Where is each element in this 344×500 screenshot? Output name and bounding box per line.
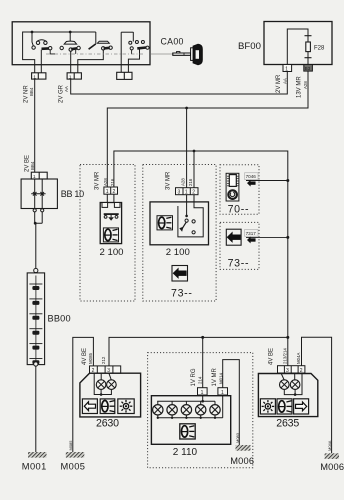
svg-text:M04A: M04A xyxy=(327,440,332,451)
svg-text:B3: B3 xyxy=(305,66,311,71)
svg-text:M083: M083 xyxy=(235,432,240,443)
svg-text:BB4: BB4 xyxy=(29,87,34,96)
svg-text:3V MR: 3V MR xyxy=(94,171,100,190)
svg-text:214: 214 xyxy=(198,376,203,384)
svg-text:13V MR: 13V MR xyxy=(297,76,303,98)
svg-text:M001: M001 xyxy=(22,462,47,472)
svg-text:M085: M085 xyxy=(88,352,93,364)
svg-text:1V MR: 1V MR xyxy=(212,367,218,386)
svg-text:BB4: BB4 xyxy=(30,161,35,170)
svg-text:212: 212 xyxy=(101,356,106,364)
svg-text:4V BE: 4V BE xyxy=(269,348,275,365)
svg-text:2630: 2630 xyxy=(96,418,119,430)
svg-text:2635: 2635 xyxy=(276,418,299,430)
svg-text:AA: AA xyxy=(282,78,287,84)
svg-text:2 110: 2 110 xyxy=(173,447,198,458)
svg-text:70--: 70-- xyxy=(228,203,250,215)
svg-text:216: 216 xyxy=(188,178,193,186)
svg-text:CA00: CA00 xyxy=(161,37,184,47)
svg-text:1: 1 xyxy=(221,390,224,396)
svg-text:7317: 7317 xyxy=(246,231,257,236)
svg-text:2 100: 2 100 xyxy=(166,247,190,258)
svg-text:F28: F28 xyxy=(314,46,325,52)
svg-text:AA: AA xyxy=(64,86,69,92)
svg-text:2V MR: 2V MR xyxy=(276,74,282,93)
svg-text:BF00: BF00 xyxy=(238,41,261,52)
svg-text:A28: A28 xyxy=(181,178,186,186)
svg-text:2 100: 2 100 xyxy=(100,247,124,258)
svg-text:BB00: BB00 xyxy=(48,314,71,324)
svg-text:3V MR: 3V MR xyxy=(166,171,172,190)
svg-text:M005: M005 xyxy=(61,462,86,472)
svg-text:1: 1 xyxy=(201,390,204,396)
svg-text:A28: A28 xyxy=(303,81,308,89)
svg-text:216: 216 xyxy=(110,178,115,186)
svg-text:1: 1 xyxy=(33,174,36,179)
svg-text:213/214: 213/214 xyxy=(282,348,287,364)
svg-text:A28: A28 xyxy=(103,178,108,186)
svg-text:3: 3 xyxy=(178,190,181,196)
svg-text:M04A: M04A xyxy=(296,352,301,364)
svg-text:1V RG: 1V RG xyxy=(191,368,197,386)
svg-text:BB 10: BB 10 xyxy=(61,189,84,199)
svg-text:7046: 7046 xyxy=(246,174,257,179)
svg-text:M006: M006 xyxy=(320,462,344,472)
svg-text:73--: 73-- xyxy=(171,287,193,299)
svg-text:73--: 73-- xyxy=(228,257,250,269)
svg-text:M085: M085 xyxy=(68,440,73,451)
svg-text:M006: M006 xyxy=(230,456,254,466)
